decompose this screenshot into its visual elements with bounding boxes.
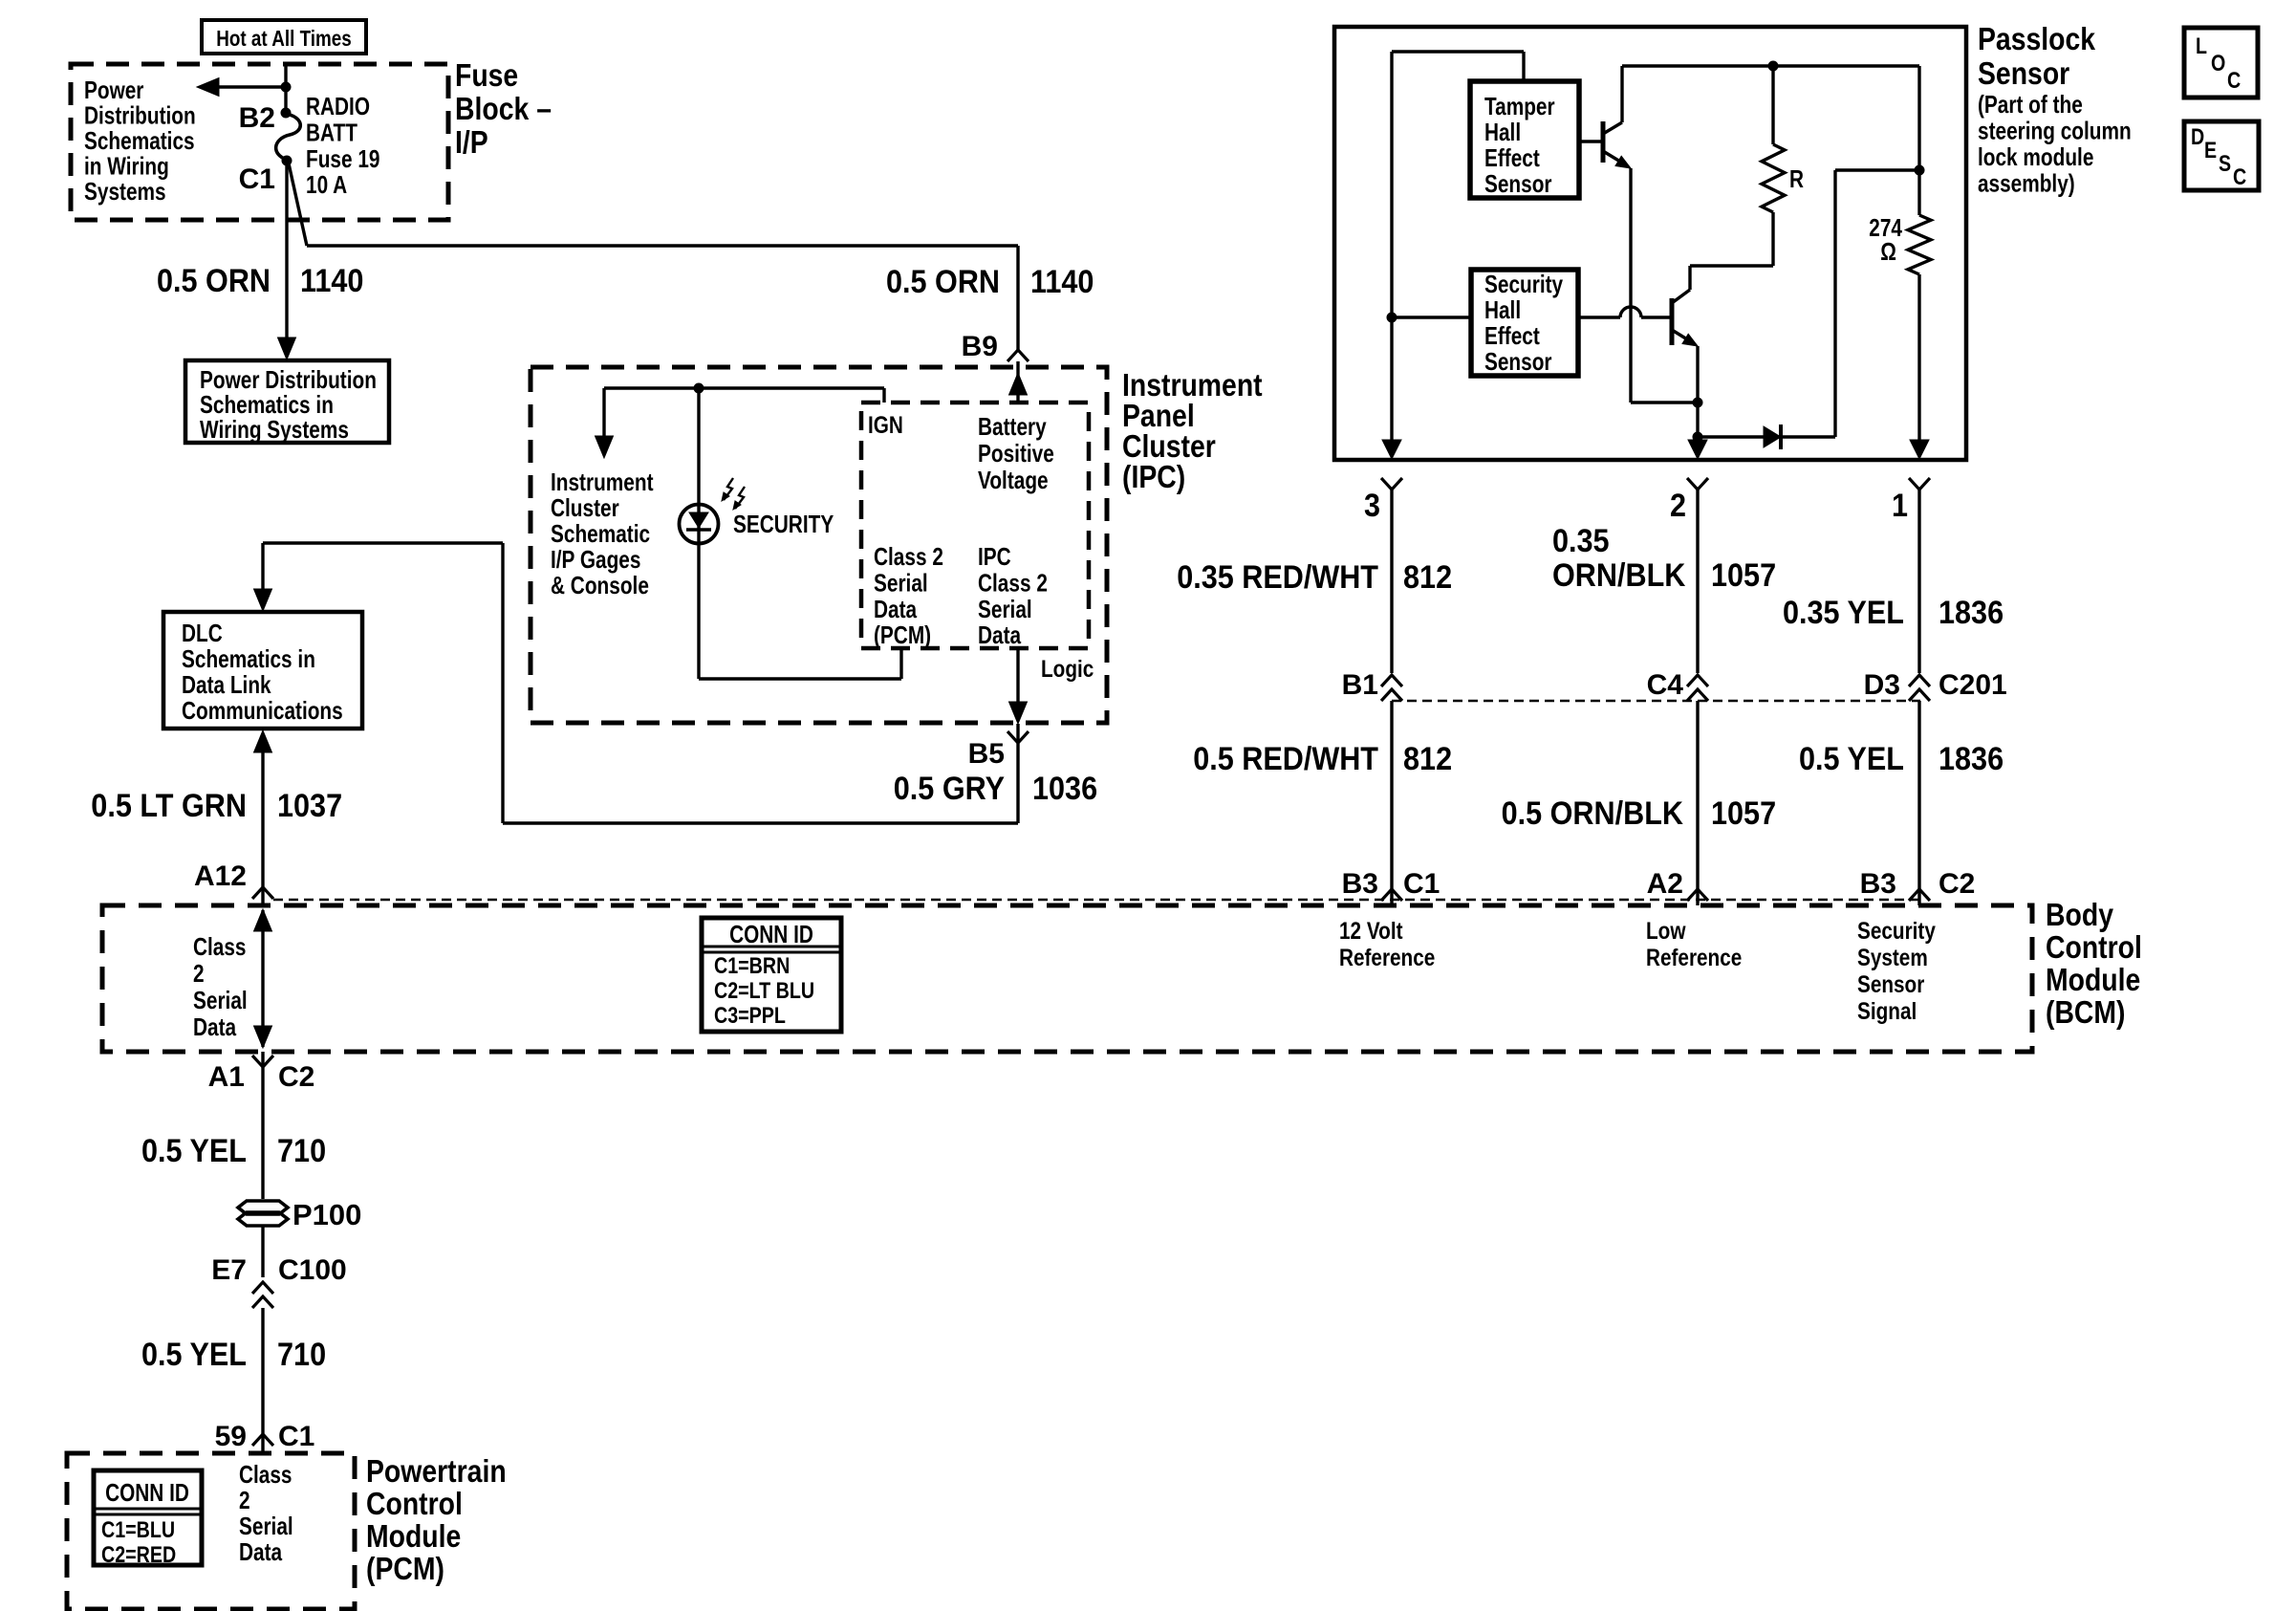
svg-text:Schematics: Schematics [84,126,195,155]
wire: Q2 emitter down to junction [1696,346,1699,403]
svg-text:1036: 1036 [1032,771,1097,807]
svg-text:Fuse 19: Fuse 19 [306,144,380,173]
box: Tamper Hall Effect Sensor [1470,81,1579,198]
svg-text:C2: C2 [278,1061,314,1093]
svg-text:Serial: Serial [874,568,928,597]
svg-text:B1: B1 [1342,669,1378,701]
box: Security Hall Effect Sensor [1471,270,1578,376]
svg-text:Data Link: Data Link [182,670,271,699]
svg-text:812: 812 [1403,741,1452,777]
svg-text:Security: Security [1857,918,1936,945]
svg-text:3: 3 [1364,488,1380,524]
svg-text:B3: B3 [1342,868,1378,900]
svg-text:Wiring Systems: Wiring Systems [200,415,349,444]
svg-text:Body: Body [2046,897,2114,932]
node: junction dot above resistor R [1768,61,1779,72]
svg-text:C1=BRN: C1=BRN [714,953,790,979]
node: diode branch junction dot [1693,432,1703,443]
svg-text:0.5 ORN: 0.5 ORN [886,264,1000,300]
svg-text:Module: Module [366,1518,461,1554]
wire: pin 1 to passlock box bottom [1917,274,1920,440]
svg-text:C: C [2227,68,2241,94]
indicator lamp: SECURITY (LED symbol) [697,388,700,679]
svg-text:C1: C1 [278,1421,314,1452]
svg-text:Reference: Reference [1339,945,1435,971]
svg-text:C1=BLU: C1=BLU [101,1517,175,1543]
svg-text:Serial: Serial [239,1512,293,1540]
svg-text:(Part of the: (Part of the [1978,90,2083,119]
svg-text:Sensor: Sensor [1484,347,1552,376]
svg-text:I/P Gages: I/P Gages [551,545,640,574]
svg-text:Ω: Ω [1880,237,1896,266]
svg-text:(IPC): (IPC) [1122,459,1185,494]
svg-text:Positive: Positive [978,439,1054,468]
wire: 0.5 ORN/BLK 1057 (C201 to BCM A2) [1696,701,1699,905]
svg-text:I/P: I/P [455,124,488,160]
svg-text:B5: B5 [968,738,1005,770]
svg-text:0.5 ORN: 0.5 ORN [157,263,271,299]
svg-text:in Wiring: in Wiring [84,152,169,181]
svg-text:steering column: steering column [1978,117,2132,145]
svg-text:Logic: Logic [1041,656,1094,683]
wire: 0.35 ORN/BLK 1057 (pin2 to C201 C4) [1696,490,1699,673]
svg-text:Reference: Reference [1646,945,1742,971]
svg-text:Battery: Battery [978,412,1047,441]
svg-text:Instrument: Instrument [551,468,654,496]
svg-text:0.35 RED/WHT: 0.35 RED/WHT [1177,559,1378,596]
svg-text:2: 2 [239,1486,250,1514]
svg-text:D: D [2191,124,2204,150]
svg-text:0.5 ORN/BLK: 0.5 ORN/BLK [1502,795,1684,832]
node: junction dot on IPC rail [694,383,704,394]
node: fuse terminal C1 dot [282,156,292,166]
fuse block dashed box: Fuse Block - I/P [71,64,448,220]
svg-text:0.5 YEL: 0.5 YEL [1799,741,1904,777]
grommet P100 [238,1201,288,1214]
wire: 0.5 YEL 710 from C100 to PCM [261,1308,264,1453]
svg-text:0.35: 0.35 [1552,523,1610,559]
wire: down to fuse terminal B2 [284,87,287,113]
svg-text:S: S [2219,151,2231,177]
wire: stub to IGN input of logic box [882,388,885,403]
node: junction at pin3 column [1387,313,1397,323]
svg-text:assembly): assembly) [1978,169,2075,198]
node: junction dot on 274 ohm column [1915,165,1925,176]
svg-text:E: E [2204,138,2217,163]
transistor Q1 (tamper, NPN) [1579,140,1603,142]
svg-text:Voltage: Voltage [978,466,1049,494]
svg-text:Low: Low [1646,918,1686,945]
wire: pin 2 to passlock box bottom [1696,437,1699,442]
svg-text:Power: Power [84,76,143,104]
module box: Powertrain Control Module (PCM) dashed [67,1453,355,1609]
svg-text:1057: 1057 [1711,557,1776,594]
svg-text:Data: Data [978,620,1022,649]
svg-text:Hall: Hall [1484,118,1521,146]
svg-text:Distribution: Distribution [84,101,196,130]
wire: diode to 274 ohm junction [1833,170,1836,437]
CONN ID table (PCM): C1=BLU C2=RED [94,1470,202,1565]
diode D1 [1698,435,1764,438]
wire: 0.35 YEL 1836 (pin1 to C201 D3) [1917,490,1920,673]
svg-text:C2: C2 [1939,868,1975,900]
wire: junction down [1696,403,1699,437]
svg-text:System: System [1857,945,1928,971]
module box: Passlock Sensor [1334,27,1966,460]
wire: top rail corner down to 274 ohm resistor [1917,66,1920,215]
svg-text:Sensor: Sensor [1484,169,1552,198]
svg-text:Effect: Effect [1484,321,1540,350]
svg-text:0.35 YEL: 0.35 YEL [1783,595,1904,631]
svg-text:710: 710 [277,1133,326,1169]
svg-text:B3: B3 [1860,868,1896,900]
svg-text:Sensor: Sensor [1978,55,2069,91]
svg-text:C201: C201 [1939,669,2007,701]
svg-text:Serial: Serial [193,986,248,1014]
CONN ID table (BCM): C1=BRN C2=LT BLU C3=PPL [702,918,841,1032]
svg-text:(PCM): (PCM) [874,620,931,649]
svg-text:(BCM): (BCM) [2046,994,2126,1030]
svg-text:D3: D3 [1864,669,1900,701]
wire: tamper sensor supply [1522,52,1525,81]
svg-text:P100: P100 [292,1198,361,1231]
pin 1 of passlock sensor [1909,478,1930,490]
svg-text:C100: C100 [278,1254,347,1286]
svg-text:Module: Module [2046,962,2140,997]
svg-text:Data: Data [239,1537,283,1566]
svg-text:1140: 1140 [1030,264,1094,300]
svg-text:12 Volt: 12 Volt [1339,918,1403,945]
svg-text:Hot at All Times: Hot at All Times [216,26,352,51]
svg-text:Schematic: Schematic [551,519,650,548]
svg-text:ORN/BLK: ORN/BLK [1552,557,1686,594]
wire: 0.5 YEL 1836 (C201 to BCM B3/C2) [1917,701,1920,905]
lamp rays (lightning arrows) [724,478,733,500]
svg-text:Serial: Serial [978,595,1032,623]
svg-text:1836: 1836 [1939,741,2004,777]
svg-text:Signal: Signal [1857,998,1917,1025]
svg-text:SECURITY: SECURITY [733,510,834,538]
wire: logic output to B5 with arrow [1016,648,1019,709]
pin A1 / C2 of BCM [252,1056,273,1067]
wire: 0.5 RED/WHT 812 (C201 to BCM B3/C1) [1390,701,1393,905]
svg-text:IPC: IPC [978,542,1011,571]
svg-text:A12: A12 [194,860,247,892]
box: Power Distribution Schematics in Wiring Systems [185,360,389,443]
svg-text:Schematics in: Schematics in [182,644,315,673]
pin 2 of passlock sensor [1687,478,1708,490]
svg-text:812: 812 [1403,559,1452,596]
svg-text:Tamper: Tamper [1484,92,1555,120]
svg-text:A1: A1 [208,1061,245,1093]
svg-text:Passlock: Passlock [1978,21,2096,56]
wire: B9 into IPC with arrow [1016,361,1019,403]
svg-text:10 A: 10 A [306,170,347,199]
svg-text:2: 2 [1670,488,1686,524]
svg-text:Effect: Effect [1484,143,1540,172]
svg-text:A2: A2 [1647,868,1683,900]
svg-text:IGN: IGN [868,412,903,439]
wire: 0.5 LT GRN 1037 from DLC to BCM A12 [254,730,272,752]
svg-text:C2=RED: C2=RED [101,1542,176,1568]
wire: 0.5 ORN 1140 from fuse C1 to IPC B9 [289,163,307,246]
resistor R [1771,66,1774,144]
svg-text:C3=PPL: C3=PPL [714,1003,786,1029]
box: DLC Schematics in Data Link Communications [163,612,362,729]
svg-text:Class: Class [239,1460,292,1489]
svg-text:BATT: BATT [306,118,357,146]
wire: IPC internal top rail [604,386,884,389]
svg-text:0.5 LT GRN: 0.5 LT GRN [91,788,247,824]
svg-text:C: C [2233,164,2246,190]
svg-text:710: 710 [277,1337,326,1373]
module box: Body Control Module (BCM) dashed [102,905,2032,1052]
svg-text:Communications: Communications [182,696,343,725]
wire: R bottom to Q2 collector [1690,264,1773,267]
svg-text:lock module: lock module [1978,142,2093,171]
module box: Instrument Panel Cluster (IPC) dashed [531,367,1107,723]
svg-text:& Console: & Console [551,571,649,599]
svg-text:C1: C1 [1403,868,1440,900]
svg-text:Security: Security [1484,270,1564,298]
wire: 0.5 YEL 710 from BCM A1 to P100 [261,1052,264,1199]
node: emitter junction dot [1693,398,1703,408]
wire: 0.5 GRY 1036 from B5 to DLC route [1016,724,1019,823]
svg-text:0.5 RED/WHT: 0.5 RED/WHT [1193,741,1378,777]
svg-text:1057: 1057 [1711,795,1776,832]
transistor Q2 (security, NPN) [1670,298,1675,345]
svg-text:0.5 YEL: 0.5 YEL [141,1337,247,1373]
label box: Hot at All Times [202,20,366,54]
svg-text:Powertrain: Powertrain [366,1453,507,1489]
svg-text:1836: 1836 [1939,595,2004,631]
connector line: C201 (thin dashed) [1392,700,1920,702]
reference box: LOC [2184,28,2258,98]
connector line: BCM connector (thin dashed) [273,899,1920,901]
svg-text:1140: 1140 [300,263,363,299]
node: fuse terminal B2 dot [281,108,292,119]
svg-text:DLC: DLC [182,619,223,647]
svg-text:Data: Data [193,1012,237,1041]
svg-text:Class: Class [193,932,247,961]
svg-text:B2: B2 [239,102,275,134]
svg-text:Hall: Hall [1484,295,1521,324]
svg-text:(PCM): (PCM) [366,1551,444,1586]
svg-text:Data: Data [874,595,918,623]
wire: 0.35 RED/WHT 812 (pin3 to C201 B1) [1390,490,1393,673]
svg-text:Systems: Systems [84,177,166,206]
svg-text:CONN ID: CONN ID [729,920,813,948]
svg-text:C4: C4 [1647,669,1684,701]
svg-text:2: 2 [193,959,205,988]
wire: security sensor supply [1392,316,1471,318]
logic dashed box inside IPC [861,403,1089,648]
wire: security sensor output to Q2 base with hop [1578,316,1620,318]
svg-text:0.5 YEL: 0.5 YEL [141,1133,247,1169]
resistor 274 ohm [1908,215,1931,274]
svg-text:R: R [1789,164,1804,193]
svg-text:O: O [2211,51,2225,76]
svg-text:1: 1 [1892,488,1908,524]
fuse F19: RADIO BATT Fuse 19 10 A (S-curve element) [276,114,301,160]
reference box: DESC [2184,121,2259,190]
svg-text:RADIO: RADIO [306,92,370,120]
svg-text:59: 59 [215,1421,247,1452]
wire: 0.5 ORN 1140 from fuse C1 down to power distribution [285,161,288,340]
svg-text:1037: 1037 [277,788,342,824]
wire: Q1 emitter join [1631,401,1698,403]
wire: LED cathode to logic box [699,677,901,680]
svg-text:C1: C1 [239,163,275,195]
wire: arrow to instrument cluster schematic reference [602,388,605,438]
svg-text:Class 2: Class 2 [978,568,1048,597]
svg-text:Block –: Block – [455,91,552,126]
wire: P100 to C100 [261,1226,264,1277]
svg-text:L: L [2196,33,2207,59]
pin B5 of IPC [1007,731,1029,743]
svg-text:Fuse: Fuse [455,57,518,93]
svg-text:Sensor: Sensor [1857,971,1925,998]
wire: Q1 emitter down [1629,168,1632,403]
wire: pin 3 to passlock box bottom [1390,317,1393,440]
wire: branch arrow to power distribution schematics [216,85,286,88]
svg-text:E7: E7 [211,1254,247,1286]
node: junction dot at fuse feed [281,82,292,93]
wire: Class 2 serial data inside BCM (double arrow) [261,910,264,1047]
svg-text:0.5 GRY: 0.5 GRY [894,771,1005,807]
svg-text:Cluster: Cluster [551,493,619,522]
svg-text:Class 2: Class 2 [874,542,943,571]
pin 3 of passlock sensor [1381,478,1402,490]
svg-text:C2=LT BLU: C2=LT BLU [714,978,814,1004]
svg-text:CONN ID: CONN ID [105,1478,189,1507]
svg-text:Control: Control [2046,929,2142,965]
svg-text:Control: Control [366,1486,463,1521]
wire: fuse feed from top border [284,64,287,87]
wire: passlock top rail [1622,64,1919,67]
svg-text:B9: B9 [962,331,998,362]
